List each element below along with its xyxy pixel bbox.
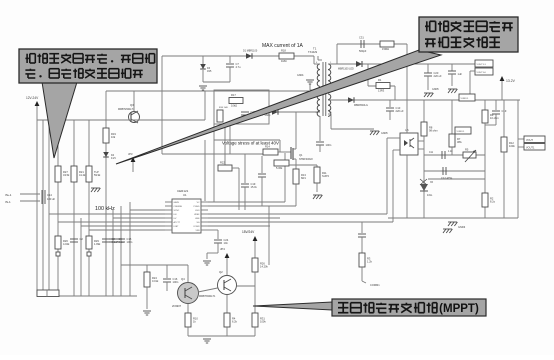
svg-text:VOUT1: VOUT1 [526, 147, 535, 150]
svg-text:100k: 100k [260, 319, 266, 323]
svg-text:(MPPT): (MPPT) [439, 303, 479, 315]
svg-text:U1: U1 [183, 193, 187, 197]
svg-text:VON2-1: VON2-1 [461, 98, 470, 100]
svg-text:1.99k: 1.99k [94, 242, 101, 246]
svg-text:MBR1100 LED: MBR1100 LED [338, 68, 354, 71]
svg-text:C12 475p: C12 475p [441, 176, 453, 180]
svg-text:Q1: Q1 [299, 153, 303, 157]
svg-text:COMM1: COMM1 [370, 283, 380, 287]
svg-text:13R3: 13R3 [378, 89, 385, 93]
svg-text:C31: C31 [359, 36, 364, 40]
svg-text:ATCTT: ATCTT [174, 221, 181, 224]
svg-text:8.2o: 8.2o [490, 199, 496, 203]
svg-text:PGND: PGND [193, 206, 200, 208]
svg-text:VOUT1-1: VOUT1-1 [477, 64, 487, 66]
svg-text:GND1: GND1 [297, 74, 304, 77]
svg-text:15V/24V: 15V/24V [242, 230, 255, 234]
svg-text:GATE: GATE [174, 201, 180, 204]
svg-text:100n: 100n [173, 280, 179, 284]
svg-text:LM: LM [174, 214, 177, 216]
svg-text:IN+1: IN+1 [5, 193, 12, 197]
svg-text:MMBT3904LT1: MMBT3904LT1 [199, 295, 216, 298]
svg-text:Q2: Q2 [219, 270, 223, 274]
svg-text:10kΩ: 10kΩ [231, 104, 237, 108]
svg-text:IOBT: IOBT [174, 226, 180, 228]
svg-text:MBR0540LG: MBR0540LG [354, 104, 368, 107]
svg-text:JP4: JP4 [220, 247, 225, 251]
svg-text:SUP3: SUP3 [322, 174, 329, 178]
svg-text:VFB: VFB [195, 230, 200, 232]
svg-text:4.02k: 4.02k [63, 242, 70, 246]
svg-text:100n: 100n [127, 240, 133, 244]
svg-text:T1: T1 [313, 47, 317, 51]
svg-text:41.2k: 41.2k [79, 173, 86, 177]
svg-text:100 kHz: 100 kHz [95, 206, 115, 212]
svg-text:Q3: Q3 [130, 103, 134, 107]
svg-text:SYNC: SYNC [174, 210, 180, 212]
svg-text:1MΩ: 1MΩ [281, 59, 287, 63]
svg-text:5.36k: 5.36k [276, 166, 283, 170]
svg-text:R1: R1 [378, 78, 382, 82]
svg-text:43.5k: 43.5k [63, 173, 70, 177]
svg-text:100 uF: 100 uF [47, 197, 55, 201]
svg-text:CSENSE: CSENSE [174, 206, 183, 208]
svg-text:GND3: GND3 [458, 225, 466, 229]
svg-text:12V-24V: 12V-24V [26, 96, 39, 100]
svg-text:COMR: COMR [193, 226, 200, 228]
svg-text:VOUT: VOUT [526, 139, 533, 142]
svg-text:9.2V: 9.2V [111, 157, 116, 160]
svg-text:10k: 10k [111, 135, 116, 139]
svg-text:220 uF: 220 uF [396, 109, 404, 113]
svg-text:VOUT1-0: VOUT1-0 [477, 72, 487, 74]
svg-text:100n: 100n [326, 143, 332, 147]
svg-text:1N5: 1N5 [207, 70, 212, 73]
svg-text:Voltage stress of at least 40V: Voltage stress of at least 40V [222, 141, 279, 146]
svg-text:R18: R18 [281, 49, 286, 53]
svg-text:NTMFS06L8: NTMFS06L8 [299, 158, 313, 161]
svg-text:R14: R14 [265, 145, 270, 149]
svg-text:IN-1: IN-1 [5, 200, 11, 204]
svg-text:15MΩ: 15MΩ [382, 47, 389, 51]
svg-text:14.20k: 14.20k [260, 264, 268, 268]
svg-text:4.7u: 4.7u [236, 65, 242, 69]
svg-text:431L: 431L [427, 194, 433, 197]
svg-text:GND5: GND5 [381, 132, 388, 135]
svg-text:R16 1kΩ: R16 1kΩ [219, 107, 228, 109]
svg-text:220 uF: 220 uF [434, 74, 442, 78]
svg-text:LINE: LINE [195, 218, 200, 220]
svg-text:TX4429: TX4429 [308, 50, 318, 54]
svg-text:59.9k: 59.9k [94, 173, 101, 177]
svg-text:Q4: Q4 [181, 277, 185, 281]
svg-text:10 ohm: 10 ohm [490, 116, 499, 120]
svg-text:C2: C2 [80, 237, 84, 241]
svg-text:1uF: 1uF [458, 72, 463, 76]
svg-text:R17: R17 [231, 93, 236, 97]
svg-text:UREF: UREF [194, 214, 200, 216]
svg-text:MAX current of 1A: MAX current of 1A [262, 43, 304, 49]
svg-text:R5: R5 [465, 148, 469, 152]
svg-text:560pF: 560pF [359, 49, 367, 53]
svg-text:C14: C14 [47, 193, 52, 197]
svg-text:100k: 100k [509, 144, 515, 148]
svg-text:SG: SG [196, 222, 199, 224]
svg-text:6.2k: 6.2k [232, 319, 238, 323]
svg-text:6R1: 6R1 [301, 176, 306, 180]
svg-text:JP3: JP3 [128, 152, 133, 156]
svg-text:98 ohm: 98 ohm [429, 128, 438, 132]
svg-text:15.0v: 15.0v [251, 185, 258, 189]
svg-text:VON2-1: VON2-1 [457, 131, 466, 133]
svg-text:2N3907: 2N3907 [172, 304, 182, 308]
svg-text:10n: 10n [224, 241, 229, 245]
svg-text:13.2V: 13.2V [506, 79, 516, 83]
svg-text:VC: VC [197, 202, 200, 204]
svg-text:38A: 38A [457, 140, 462, 144]
svg-text:GND5: GND5 [432, 88, 439, 91]
svg-text:D1 MBR1100: D1 MBR1100 [243, 50, 258, 53]
svg-text:0.01k: 0.01k [152, 279, 159, 283]
svg-text:MMBT2904LT1: MMBT2904LT1 [118, 108, 135, 111]
svg-text:VGS: VGS [195, 210, 200, 212]
svg-text:R22: R22 [220, 161, 225, 165]
svg-text:1.2k: 1.2k [367, 259, 373, 263]
